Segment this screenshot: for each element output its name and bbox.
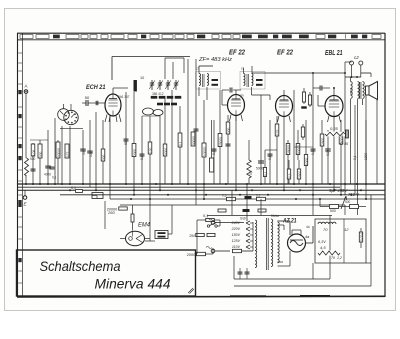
svg-text:50000: 50000 <box>340 134 344 143</box>
wire ef22b anode down <box>283 117 285 191</box>
junction dots right <box>312 72 314 74</box>
svg-text:6,3V: 6,3V <box>318 240 326 244</box>
wire AZ21 output <box>306 242 314 244</box>
svg-text:c1: c1 <box>196 67 200 71</box>
svg-text:25000: 25000 <box>287 145 291 154</box>
electrolytic cap 2 <box>350 205 359 209</box>
svg-text:150V: 150V <box>232 233 241 237</box>
wire col 210 pot <box>210 158 214 172</box>
trimmer c2 left <box>350 61 354 65</box>
svg-text:4a: 4a <box>306 225 310 229</box>
svg-text:4000: 4000 <box>44 173 51 177</box>
oscillator box wire top <box>112 56 190 58</box>
svg-text:0,1: 0,1 <box>311 150 315 155</box>
wire col 270 <box>269 120 271 184</box>
resistor col103 <box>101 149 105 161</box>
svg-text:gn: gn <box>240 94 244 98</box>
antenna coil <box>24 158 29 176</box>
wire ef22b top <box>283 90 285 96</box>
resistor det extra 2 <box>309 92 311 107</box>
resistor 2000 low <box>197 252 206 255</box>
svg-text:5µF 450V: 5µF 450V <box>329 188 348 193</box>
resistor col180 <box>178 133 182 147</box>
svg-text:1000: 1000 <box>305 158 309 165</box>
svg-text:10: 10 <box>140 76 144 80</box>
wire ebl grid <box>318 105 325 107</box>
svg-text:50: 50 <box>82 151 86 155</box>
svg-text:Schaltschema: Schaltschema <box>40 258 121 274</box>
svg-text:300: 300 <box>227 127 231 133</box>
wire connector left 2 <box>30 139 48 141</box>
svg-text:346 347: 346 347 <box>118 95 130 99</box>
capacitor 4000 <box>45 165 51 167</box>
svg-text:175: 175 <box>276 129 280 135</box>
svg-text:1,06: 1,06 <box>32 150 36 156</box>
resistor osc 2000 <box>132 144 136 157</box>
wire osc col 142 <box>141 116 143 184</box>
IF1 core <box>202 74 204 87</box>
wire left col 3 <box>39 140 41 184</box>
power box bottom wire <box>234 278 330 280</box>
resistor big zigzag <box>246 160 252 178</box>
padder blobs row 2 <box>157 103 163 106</box>
IF2 coil right <box>252 74 254 86</box>
resistor 2M <box>196 233 205 236</box>
wire ech21 anode up <box>112 88 114 94</box>
capacitor col270 <box>268 153 273 155</box>
wire left col 6 <box>61 126 63 184</box>
svg-text:50000: 50000 <box>57 148 61 157</box>
frame right border <box>384 33 386 297</box>
wire IF1 top <box>198 66 200 74</box>
potentiometer arrow <box>341 196 347 209</box>
resistor 0.5 below bus <box>227 197 236 200</box>
wire osc L vertical <box>164 58 166 79</box>
svg-text:0,1: 0,1 <box>203 214 208 218</box>
svg-text:220V: 220V <box>231 227 241 231</box>
IF2 core <box>246 74 248 87</box>
wire col 83 <box>82 130 84 184</box>
resistor col220 <box>218 134 222 147</box>
EM4 pack resistor top <box>158 232 166 234</box>
svg-text:260: 260 <box>107 210 115 215</box>
svg-text:2M: 2M <box>189 234 194 238</box>
wire col 366 long <box>365 120 367 184</box>
wire connector left 1 <box>60 128 83 130</box>
frame left ruler ticks <box>18 39 22 41</box>
wire 0.1 cap near E <box>76 190 83 193</box>
resistor 500 <box>38 144 42 158</box>
svg-text:50000: 50000 <box>192 136 196 145</box>
svg-text:c1: c1 <box>241 67 245 71</box>
svg-text:EBL 21: EBL 21 <box>325 50 343 57</box>
EF22 second tube <box>276 96 293 117</box>
svg-text:5000: 5000 <box>164 148 168 155</box>
svg-text:177: 177 <box>66 151 70 157</box>
wire EM4 feed resistor <box>132 205 134 214</box>
wire left col 5 <box>54 118 56 184</box>
power section left border wire <box>104 201 106 229</box>
wire col 345 long <box>344 62 346 195</box>
title box corner mark <box>188 288 194 294</box>
wire col 103 <box>102 120 104 184</box>
svg-text:50000: 50000 <box>297 145 301 154</box>
wire filter bottom <box>312 263 314 279</box>
wire drop 261b <box>260 199 262 215</box>
IF transformer 2 box <box>240 72 265 90</box>
svg-text:1,2: 1,2 <box>337 256 342 260</box>
mains terminal 2 <box>211 249 215 253</box>
wire ebl top <box>333 88 335 96</box>
svg-text:300: 300 <box>102 154 106 160</box>
blob det extra <box>301 106 307 108</box>
wire col 377 long <box>376 100 378 185</box>
bus supply 1 <box>60 194 385 196</box>
wire otx down <box>357 99 359 215</box>
oscillator coil ellipses <box>143 108 154 115</box>
wire left col 2 <box>32 143 34 184</box>
svg-text:2000: 2000 <box>133 149 137 156</box>
wire ebl anode down <box>333 117 335 191</box>
wire osc col 126 <box>125 92 127 184</box>
svg-text:0,5: 0,5 <box>268 155 272 160</box>
wire switch links <box>197 219 206 221</box>
bus chassis top <box>18 183 386 185</box>
bus junction dots <box>25 183 27 185</box>
wire connector det <box>294 146 313 148</box>
wire drop 247 <box>246 184 248 221</box>
wire sec top2 <box>278 224 285 226</box>
svg-text:1200: 1200 <box>364 153 368 160</box>
power transformer core lines <box>266 218 268 270</box>
svg-text:100: 100 <box>89 151 93 157</box>
svg-text:0,1: 0,1 <box>256 194 261 198</box>
EM4 pins <box>120 238 125 240</box>
resistor 0.5 <box>288 160 290 184</box>
capacitor col214 <box>212 148 217 150</box>
IF1 coil left <box>199 74 201 86</box>
ferrite rod bar <box>134 80 137 92</box>
svg-text:2500: 2500 <box>350 88 354 95</box>
wire col 294 <box>293 90 295 184</box>
resistor 20000 horiz <box>119 207 128 210</box>
capacitor osc 1 <box>124 138 129 140</box>
EF22a pin fan <box>230 115 232 121</box>
wire taps vertical <box>252 222 254 251</box>
tone cap 0.25 resistor <box>325 132 345 137</box>
resistor col306b <box>302 124 304 140</box>
capacitor col83 <box>80 148 86 150</box>
svg-text:12: 12 <box>344 227 349 232</box>
svg-text:10000: 10000 <box>203 147 207 156</box>
svg-text:0,1: 0,1 <box>179 141 183 146</box>
svg-text:0,1: 0,1 <box>71 186 76 190</box>
wire col 165 mid <box>164 96 166 184</box>
svg-text:25000: 25000 <box>219 137 223 146</box>
svg-text:120: 120 <box>149 147 153 153</box>
wire col 261 <box>260 95 262 184</box>
capacitor grid blocks <box>95 101 97 106</box>
capacitor col313 <box>311 148 316 150</box>
capacitor ef22a2 <box>226 143 231 145</box>
resistor 500b <box>207 233 215 236</box>
resistor osc col150 <box>148 142 152 154</box>
EBL21 tube <box>325 96 343 117</box>
wire col 90 <box>89 120 91 187</box>
resistor col165 <box>163 144 167 156</box>
capacitor 50 top <box>85 100 87 106</box>
capacitor ef22a top <box>229 88 231 93</box>
filter box <box>315 219 366 263</box>
frame top ruler ticks <box>20 35 33 39</box>
resistor col204 <box>202 143 206 157</box>
capacitor col196 <box>194 128 199 130</box>
svg-text:4,5: 4,5 <box>320 245 326 250</box>
wire connector osc <box>142 115 160 117</box>
IF2 cap left <box>256 79 263 81</box>
capacitor 0.1 left <box>50 166 55 168</box>
svg-text:0,1: 0,1 <box>52 176 57 180</box>
bus chassis mid <box>18 186 341 188</box>
IF1 cap left <box>212 79 219 81</box>
wire power box top <box>207 215 332 217</box>
wire c2 drops <box>351 65 353 77</box>
resistor col188 50000 <box>192 132 194 146</box>
wire inner right low <box>344 205 346 215</box>
wire IF2 to EF2 grid <box>252 94 271 96</box>
wire mains to taps <box>215 222 244 224</box>
wire connector ef2 grid <box>265 149 277 151</box>
bus supply 2 <box>110 198 385 200</box>
resistor 25000 <box>287 140 289 184</box>
transformer tap arrows <box>246 221 250 225</box>
power transformer primary winding <box>255 220 257 268</box>
svg-text:EF 22: EF 22 <box>277 50 293 57</box>
frame top ruler line <box>17 32 385 34</box>
svg-text:70: 70 <box>331 256 335 260</box>
EM4 tube <box>126 231 145 245</box>
svg-text:2500: 2500 <box>298 171 302 178</box>
wire grid to tube <box>92 102 105 104</box>
capacitor 5000 <box>258 160 264 162</box>
svg-text:50: 50 <box>85 95 90 100</box>
bus supply 3 <box>120 204 345 206</box>
speaker voice coil <box>366 86 370 95</box>
output transformer secondary <box>363 82 365 99</box>
wire elco links <box>320 206 329 208</box>
capacitor col306 <box>305 120 307 184</box>
wire osc col 134 <box>133 92 135 195</box>
svg-text:0,1: 0,1 <box>353 155 357 160</box>
wire col 355 long <box>354 105 356 195</box>
wire ef22a top cap <box>235 90 237 95</box>
resistor left 1 <box>31 144 35 156</box>
svg-text:c2: c2 <box>354 55 359 60</box>
svg-text:386 412: 386 412 <box>152 92 164 96</box>
capacitor osc2 <box>140 153 145 155</box>
EF22 first tube <box>228 95 245 116</box>
wire col 313 long <box>312 73 314 215</box>
power transformer HT winding <box>278 222 280 263</box>
svg-text:0,5: 0,5 <box>222 194 227 198</box>
svg-text:80: 80 <box>124 141 128 145</box>
EF22b pin fan <box>278 116 280 122</box>
trimmer c2 right <box>359 61 363 65</box>
svg-text:2500: 2500 <box>321 138 325 145</box>
resistor 1000 ebl <box>340 120 342 195</box>
output transformer primary <box>358 82 360 99</box>
trimmer row <box>151 80 153 90</box>
svg-text:EF 22: EF 22 <box>229 50 245 57</box>
capacitor below bus 2 <box>218 209 226 212</box>
EM4 pack resistor bottom <box>158 236 166 238</box>
IF2 coil left <box>244 74 246 86</box>
wire sec top to AZ21 <box>278 220 291 222</box>
wire col 180 <box>179 106 181 184</box>
filter choke coil <box>318 222 336 224</box>
resistor 2500 ebl <box>321 120 323 184</box>
wire col 196 long <box>195 59 197 205</box>
svg-text:EM4: EM4 <box>138 222 151 229</box>
heater caps <box>238 271 243 273</box>
capacitor col 265 small <box>264 150 266 184</box>
svg-text:4a: 4a <box>305 235 309 239</box>
svg-text:0,5: 0,5 <box>288 173 292 178</box>
svg-text:0,1: 0,1 <box>264 171 268 176</box>
IF1 coil right <box>207 74 209 86</box>
wire osc col 150 <box>149 116 151 199</box>
wire left col 4 <box>47 130 49 184</box>
wire earth stub <box>24 190 26 196</box>
wire col 188 <box>187 59 189 184</box>
output transformer field coil <box>351 82 353 99</box>
svg-text:ECH 21: ECH 21 <box>86 84 106 91</box>
wire power box right <box>329 216 331 280</box>
speaker cone <box>369 82 378 100</box>
svg-text:0,2: 0,2 <box>249 170 253 175</box>
blob below bus 2 <box>243 209 250 212</box>
capacitor 0.02 <box>325 148 331 150</box>
svg-text:500: 500 <box>345 200 351 204</box>
svg-text:110V: 110V <box>232 245 241 249</box>
wire right col 371 low <box>370 195 372 263</box>
wire sec bottom <box>278 261 284 263</box>
svg-text:70: 70 <box>323 227 328 232</box>
svg-text:Sich: Sich <box>240 217 246 221</box>
svg-text:ZF= 483 kHz: ZF= 483 kHz <box>198 57 233 63</box>
resistor 50000 left <box>57 140 59 184</box>
svg-text:5000: 5000 <box>256 167 263 171</box>
capacitor ant <box>31 168 36 170</box>
wire drop 232 <box>231 190 233 215</box>
wire band switch to bus <box>69 126 71 184</box>
wire col 110 long <box>109 116 111 199</box>
wire IF1 down <box>198 87 200 96</box>
wire col 96 long <box>95 112 97 190</box>
resistor below bus 3 <box>258 209 266 212</box>
wire osc col 160 <box>159 116 161 190</box>
frame bottom border <box>17 295 385 298</box>
wire ef22a anode <box>235 116 237 191</box>
svg-text:500: 500 <box>39 151 43 157</box>
fuse Sich <box>233 249 242 252</box>
capacitor ebl coupling <box>319 86 321 91</box>
wire antenna down <box>25 93 27 184</box>
wire col 172 <box>171 90 173 184</box>
wire ef22a grid <box>222 104 228 106</box>
mains terminal 1 <box>211 221 215 225</box>
earth terminal E <box>23 196 27 200</box>
svg-text:A: A <box>25 84 28 89</box>
wire col 220 <box>219 90 221 184</box>
filter resistor 4.5 zigzag <box>318 250 340 255</box>
capacitor col90 <box>87 150 93 152</box>
svg-text:500: 500 <box>330 209 336 213</box>
svg-text:Minerva 444: Minerva 444 <box>95 276 171 292</box>
svg-text:500: 500 <box>30 157 36 161</box>
wire IF2 top link <box>243 68 245 74</box>
wire col 371 <box>370 73 372 77</box>
svg-text:750 V: 750 V <box>348 192 360 197</box>
EBL21 pin fan <box>328 116 330 122</box>
wire speaker gnd <box>365 95 367 199</box>
resistor 2500 <box>298 160 300 184</box>
wire long anode line y73 <box>252 72 345 74</box>
ECH21 tube <box>105 94 121 116</box>
wire col 204 body <box>203 100 205 199</box>
filter box divider <box>343 219 345 263</box>
wire EM4 link <box>145 240 155 242</box>
svg-text:240V: 240V <box>231 221 241 225</box>
bus chassis low <box>18 189 386 191</box>
IF1 cap right <box>212 84 219 86</box>
blob below bus <box>245 196 252 199</box>
resistor ef22b cath <box>276 116 278 184</box>
title box <box>17 250 196 296</box>
wire EM4 pack up <box>168 233 172 235</box>
resistor 50000 b <box>297 130 299 160</box>
padder blobs row 1 <box>151 96 158 99</box>
svg-text:125V: 125V <box>232 239 241 243</box>
wire osc vertical2 <box>172 62 174 79</box>
electrolytic cap 1 <box>330 205 339 209</box>
resistor det extra 1 <box>303 88 305 104</box>
capacitor 0.1 switch <box>206 218 215 221</box>
wire bottom right frame inner <box>370 263 372 286</box>
fuse box near E <box>92 193 103 199</box>
band switch S1 <box>64 110 78 124</box>
resistor 0.1 below bus <box>257 197 266 200</box>
EM4 grid resistor pack box <box>155 231 168 239</box>
IF2 cap right <box>256 84 263 86</box>
svg-text:0,25: 0,25 <box>330 126 339 131</box>
mains switch <box>207 225 209 227</box>
power transformer secondary winding <box>271 219 273 267</box>
svg-text:0,1: 0,1 <box>140 155 144 160</box>
svg-text:0,004: 0,004 <box>360 233 364 241</box>
AZ21 anode wires <box>291 230 293 236</box>
AZ21 tube <box>288 234 306 252</box>
resistor ef22a cathode <box>227 115 229 184</box>
output transformer core <box>359 82 361 99</box>
svg-text:0,02: 0,02 <box>326 150 330 156</box>
resistor 177 <box>66 144 68 158</box>
filter cap 0.004 <box>359 232 362 242</box>
IF transformer 1 box <box>196 72 221 90</box>
svg-text:0,1: 0,1 <box>212 150 216 155</box>
frame left ruler line <box>17 33 19 297</box>
svg-text:2000: 2000 <box>187 253 195 257</box>
